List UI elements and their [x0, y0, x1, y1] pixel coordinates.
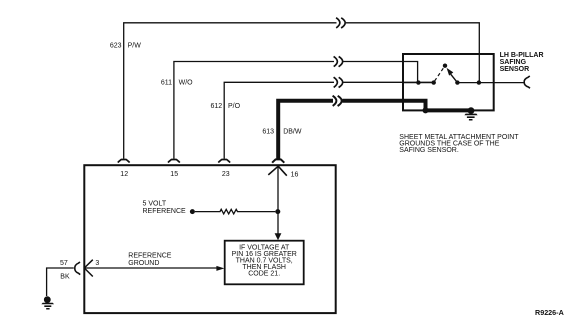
switch contact dot B [432, 80, 436, 84]
svg-text:W/O: W/O [179, 80, 194, 87]
arrowhead into logic box (right) [216, 266, 224, 271]
wire 57 BK [47, 268, 74, 296]
switch contact dot D [477, 80, 481, 84]
wire 613 DB/W thick from pin 16 to sensor case ground [276, 101, 471, 160]
svg-text:12: 12 [120, 171, 128, 178]
wire 623 P/W from pin 12 to sensor [124, 23, 480, 159]
svg-text:REFERENCE: REFERENCE [128, 253, 172, 260]
svg-text:CODE 21.: CODE 21. [248, 270, 280, 277]
inline connector on wire 613 [333, 96, 342, 106]
sensor switch line [403, 82, 524, 84]
pin 3 arrow (left, open) [84, 260, 93, 277]
svg-text:SAFING SENSOR.: SAFING SENSOR. [399, 147, 459, 154]
safing sensor box [403, 54, 494, 110]
switch pivot dot [443, 63, 447, 67]
svg-text:P/O: P/O [228, 103, 241, 110]
svg-text:23: 23 [222, 171, 230, 178]
logic box (IF VOLTAGE AT PIN 16...) [225, 241, 304, 285]
svg-text:DB/W: DB/W [283, 128, 302, 135]
chassis ground (57 BK) [41, 296, 54, 309]
sensor output connector half [524, 76, 530, 88]
switch contact dot A [416, 80, 420, 84]
svg-text:613: 613 [262, 128, 274, 135]
svg-text:15: 15 [170, 171, 178, 178]
inline connector on wire 611 [334, 56, 343, 66]
pin 3 connector half [75, 262, 80, 275]
svg-text:GROUND: GROUND [128, 260, 159, 267]
svg-text:5 VOLT: 5 VOLT [143, 200, 167, 207]
reference ground line pin 3 to logic box [84, 267, 217, 269]
svg-text:REFERENCE: REFERENCE [143, 208, 187, 215]
svg-text:BK: BK [60, 274, 70, 281]
arrowhead into logic box [275, 233, 282, 240]
svg-text:611: 611 [161, 80, 172, 87]
switch contact dot C [455, 80, 459, 84]
pin 16 internal arrow up [268, 166, 287, 176]
junction dot at 613 corner on case [423, 107, 429, 113]
junction dot of 5V reference and pin 16 line [275, 209, 280, 214]
switch moving contact arrow [451, 74, 458, 82]
pin 23 socket [218, 160, 230, 163]
inline connector on wire 612 [334, 77, 343, 87]
pin 12 socket [118, 160, 130, 163]
module box (diagnostic monitor) [84, 165, 335, 313]
switch dashed actuation line [435, 67, 445, 81]
svg-text:R9226-A: R9226-A [535, 308, 564, 317]
pin 15 socket [168, 160, 180, 163]
pin 16 socket [272, 159, 284, 162]
svg-text:612: 612 [211, 103, 223, 110]
svg-text:16: 16 [291, 171, 299, 178]
resistor R (5V reference) [195, 209, 275, 214]
5V reference node dot [190, 209, 195, 214]
svg-text:57: 57 [60, 260, 68, 267]
sensor case ground [464, 107, 477, 120]
svg-text:SENSOR: SENSOR [500, 66, 530, 73]
wire 612 P/O from pin 23 to sensor switch line [224, 82, 434, 159]
pin 16 internal line down to logic box [277, 166, 279, 234]
wire 611 W/O from pin 15 to sensor [174, 62, 418, 159]
svg-text:623: 623 [110, 42, 122, 49]
svg-text:3: 3 [95, 260, 99, 267]
inline connector on wire 623 [336, 18, 345, 28]
svg-text:P/W: P/W [128, 42, 142, 49]
